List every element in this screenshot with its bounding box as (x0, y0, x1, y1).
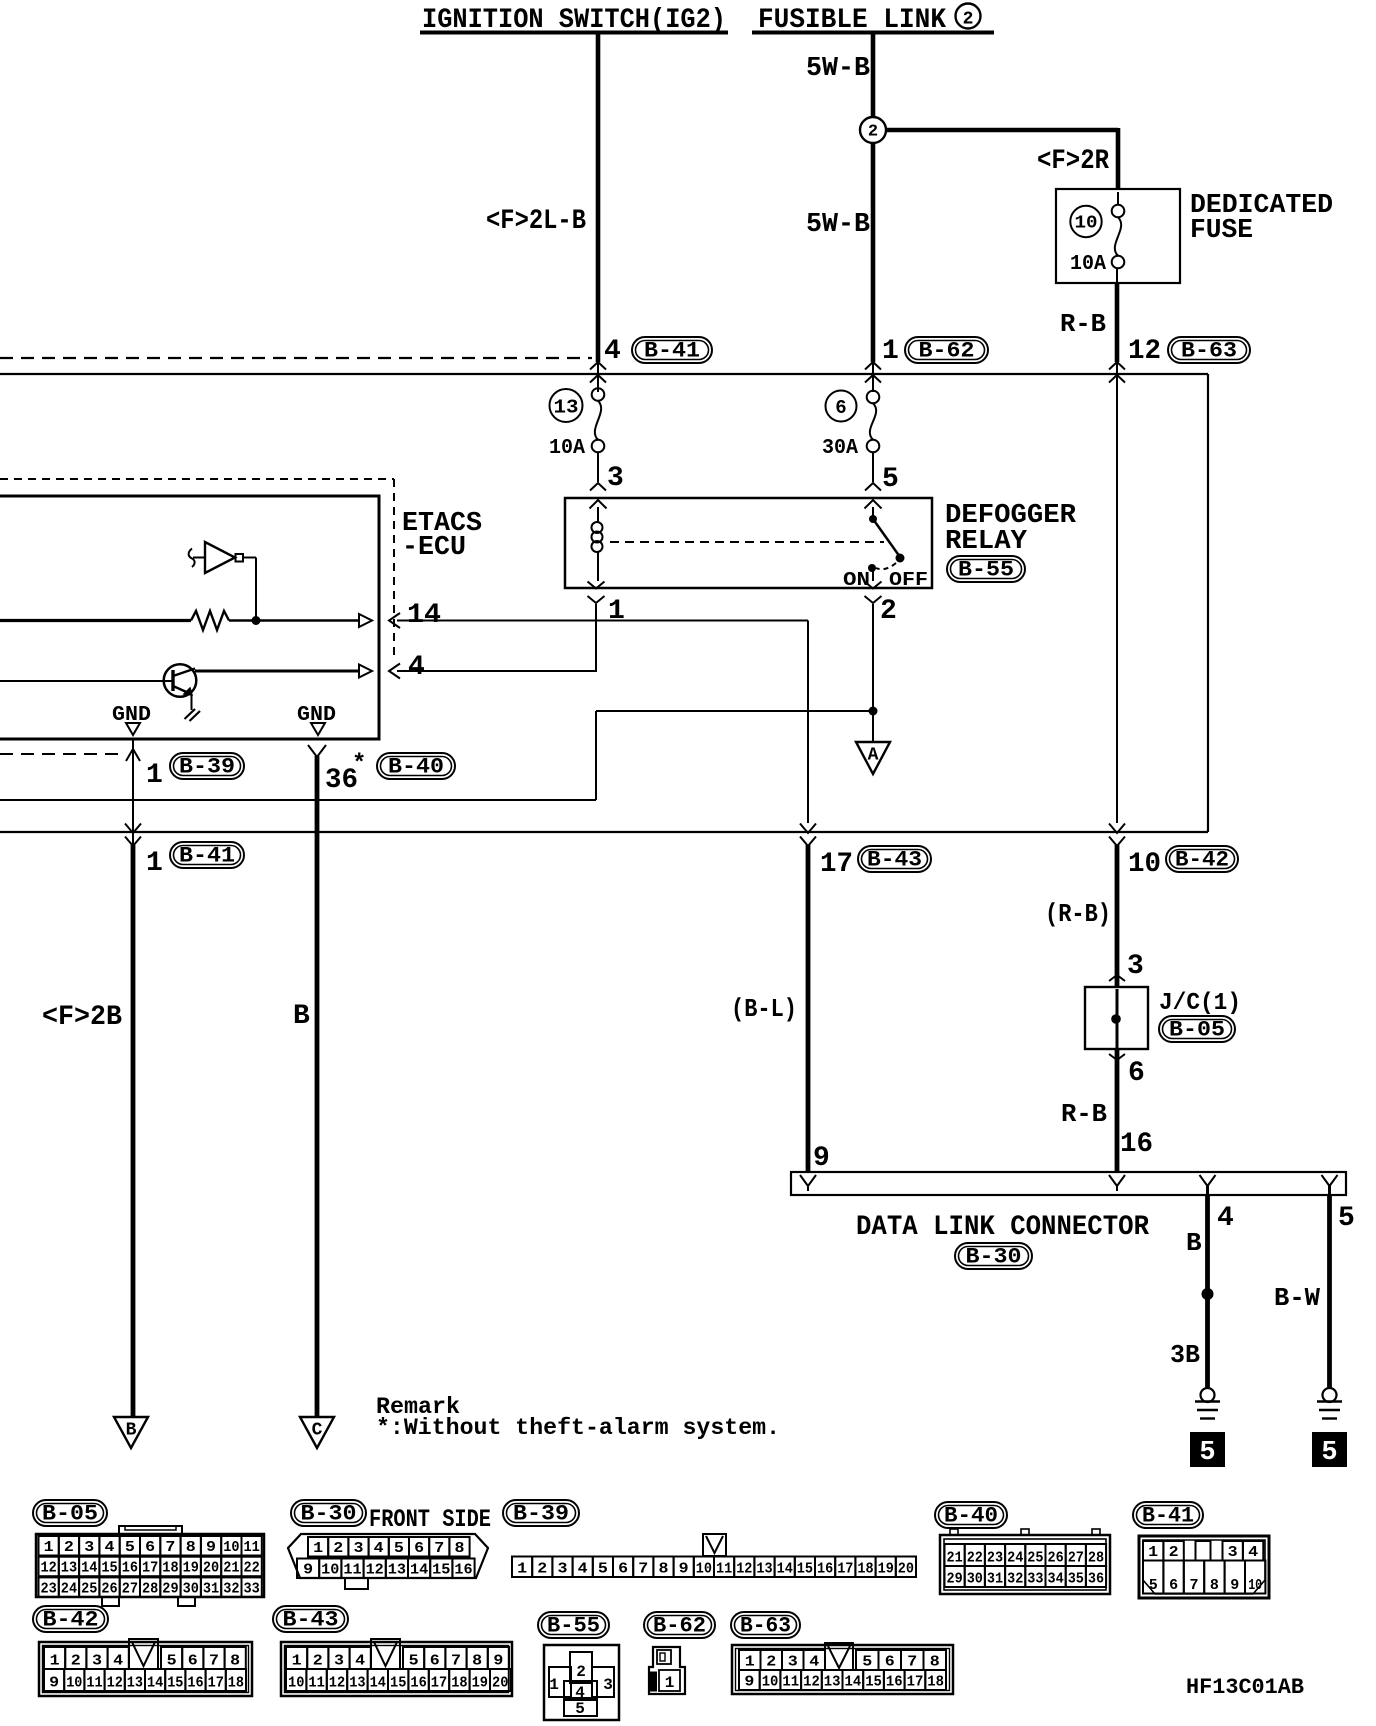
svg-text:3: 3 (558, 1561, 568, 1578)
svg-text:29: 29 (162, 1580, 178, 1597)
svg-text:7: 7 (451, 1653, 461, 1670)
connector crossing pin 17 B-43 on bus (800, 824, 816, 834)
svg-text:22: 22 (244, 1560, 260, 1577)
svg-text:4: 4 (604, 336, 621, 367)
svg-text:5: 5 (1199, 1438, 1215, 1468)
connector B-05 pin face drawing (36, 1534, 264, 1597)
svg-text:DATA LINK CONNECTOR: DATA LINK CONNECTOR (856, 1212, 1149, 1243)
svg-text:7: 7 (638, 1561, 648, 1578)
svg-text:11: 11 (308, 1675, 324, 1692)
svg-text:9: 9 (303, 1562, 313, 1579)
svg-text:B-30: B-30 (966, 1245, 1022, 1270)
svg-text:18: 18 (857, 1561, 873, 1578)
relay coil (597, 507, 599, 522)
svg-text:5: 5 (1338, 1203, 1355, 1234)
svg-text:B-05: B-05 (42, 1502, 98, 1527)
svg-text:14: 14 (410, 1562, 428, 1579)
svg-text:B: B (293, 1001, 310, 1032)
svg-text:2: 2 (333, 1540, 343, 1557)
svg-text:6: 6 (1169, 1577, 1178, 1594)
ground arrow B (114, 1417, 148, 1448)
svg-text:10: 10 (696, 1561, 712, 1578)
svg-text:1: 1 (745, 1654, 755, 1671)
svg-text:B-40: B-40 (944, 1504, 998, 1529)
svg-text:6: 6 (145, 1539, 155, 1556)
svg-text:14: 14 (81, 1560, 97, 1577)
svg-text:2: 2 (868, 123, 878, 142)
svg-text:6: 6 (430, 1653, 440, 1670)
svg-text:16: 16 (410, 1675, 426, 1692)
relay connector pill B-55 (947, 556, 1025, 582)
svg-text:9: 9 (744, 1674, 754, 1691)
junction block top edge (0, 373, 1208, 375)
svg-text:6: 6 (414, 1540, 424, 1557)
svg-text:13: 13 (824, 1674, 841, 1691)
svg-text:B-41: B-41 (644, 339, 700, 364)
wire R-B below dedicated fuse (1115, 283, 1120, 362)
relay pin 1 terminal chevrons and label (588, 582, 605, 589)
svg-text:5: 5 (394, 1540, 404, 1557)
connector B-41 pin face drawing (1139, 1536, 1269, 1598)
internal ground hash at transistor emitter (185, 709, 196, 719)
connector B-63 label pill (731, 1612, 800, 1638)
svg-text:30: 30 (967, 1571, 983, 1588)
svg-text:7: 7 (165, 1539, 175, 1556)
svg-text:8: 8 (659, 1561, 669, 1578)
svg-text:25: 25 (1027, 1550, 1043, 1567)
svg-text:36: 36 (1088, 1571, 1104, 1588)
svg-text:3: 3 (334, 1653, 344, 1670)
svg-text:10: 10 (66, 1675, 82, 1692)
svg-text:1: 1 (313, 1540, 323, 1557)
svg-text:26: 26 (101, 1580, 117, 1597)
svg-text:9: 9 (679, 1561, 689, 1578)
svg-text:<F>2L-B: <F>2L-B (486, 206, 586, 237)
svg-text:10A: 10A (549, 437, 585, 460)
svg-text:18: 18 (451, 1675, 467, 1692)
svg-text:1: 1 (608, 596, 625, 627)
svg-text:16: 16 (454, 1562, 472, 1579)
connector B-41 label pill (1133, 1502, 1203, 1528)
svg-text:1: 1 (549, 1676, 559, 1694)
DLC pin 16 fork terminal (1109, 1175, 1125, 1191)
ETACS pin 4 connector chevron and label (389, 664, 400, 679)
svg-text:23: 23 (987, 1550, 1003, 1567)
svg-text:C: C (312, 1421, 323, 1441)
svg-text:5: 5 (575, 1700, 585, 1718)
svg-text:33: 33 (244, 1580, 260, 1597)
svg-text:35: 35 (1068, 1571, 1084, 1588)
svg-text:16: 16 (1120, 1129, 1153, 1160)
svg-text:14: 14 (845, 1674, 862, 1691)
svg-text:12: 12 (736, 1561, 752, 1578)
svg-text:2: 2 (880, 596, 897, 627)
svg-text:3: 3 (84, 1539, 94, 1556)
wire ETACS ground pin 1 B-39 (132, 739, 134, 846)
svg-text:17: 17 (837, 1561, 853, 1578)
svg-text:15: 15 (432, 1562, 450, 1579)
svg-text:4: 4 (1248, 1544, 1258, 1561)
svg-text:OFF: OFF (889, 569, 928, 591)
svg-text:8: 8 (186, 1539, 196, 1556)
svg-text:31: 31 (987, 1571, 1003, 1588)
svg-text:16: 16 (817, 1561, 833, 1578)
relay pin 3 terminal chevrons (590, 483, 606, 491)
dashed boundary line above junction block (0, 357, 592, 359)
svg-text:B: B (126, 1421, 137, 1441)
svg-text:6: 6 (885, 1654, 895, 1671)
svg-text:5: 5 (1149, 1577, 1158, 1594)
junction block bottom edge (0, 831, 1208, 833)
svg-text:B-30: B-30 (301, 1502, 357, 1527)
svg-text:1: 1 (50, 1653, 60, 1670)
svg-text:15: 15 (865, 1674, 882, 1691)
svg-text:12: 12 (107, 1675, 123, 1692)
svg-text:7: 7 (1189, 1577, 1198, 1594)
svg-text:26: 26 (1048, 1550, 1064, 1567)
wire 5W-B from fusible link (871, 33, 876, 362)
svg-text:9: 9 (206, 1539, 216, 1556)
chassis ground for wire B-W (1323, 1388, 1337, 1402)
relay pin 2 wire and chevrons and label (872, 571, 874, 581)
svg-text:4: 4 (113, 1653, 123, 1670)
connector B-43 label pill (273, 1606, 348, 1632)
svg-text:5W-B: 5W-B (806, 54, 870, 84)
ground arrow A (856, 742, 890, 774)
junction dot on wire B (1202, 1288, 1214, 1300)
svg-text:19: 19 (472, 1675, 488, 1692)
DLC pin 9 fork terminal (800, 1175, 816, 1191)
wire <F>2B to ground B (131, 845, 136, 1417)
svg-text:13: 13 (127, 1675, 143, 1692)
junction dot on relay pin 2 wire (869, 707, 878, 716)
joint connector J/C(1) box (1085, 987, 1148, 1049)
svg-text:18: 18 (228, 1675, 244, 1692)
svg-text:5W-B: 5W-B (806, 210, 870, 240)
svg-text:9: 9 (493, 1653, 503, 1670)
ETACS pin 14 output arrow (359, 614, 372, 627)
svg-text:5: 5 (1321, 1438, 1337, 1468)
svg-text:B-41: B-41 (1142, 1504, 1194, 1529)
svg-text:B-41: B-41 (179, 844, 235, 869)
svg-text:8: 8 (1210, 1577, 1219, 1594)
svg-text:4: 4 (355, 1653, 365, 1670)
connector B-05 label pill (33, 1500, 107, 1526)
svg-text:1: 1 (146, 760, 163, 791)
svg-text:B-55: B-55 (547, 1614, 600, 1639)
svg-text:R-B: R-B (1061, 1099, 1107, 1129)
svg-text:FRONT SIDE: FRONT SIDE (369, 1505, 491, 1534)
wire ETACS pin 14 to junction block right (397, 620, 808, 622)
svg-text:11: 11 (244, 1539, 260, 1556)
dashed ETACS connector boundary (0, 478, 394, 480)
svg-text:4: 4 (374, 1540, 384, 1557)
svg-text:31: 31 (203, 1580, 219, 1597)
connector B-40 pin face drawing (940, 1535, 1110, 1594)
svg-text:4: 4 (809, 1654, 819, 1671)
svg-text:5: 5 (409, 1653, 419, 1670)
svg-text:B-39: B-39 (179, 755, 235, 780)
svg-text:18: 18 (927, 1674, 944, 1691)
svg-text:*:Without theft-alarm system.: *:Without theft-alarm system. (376, 1415, 780, 1441)
svg-text:B-62: B-62 (919, 339, 975, 364)
svg-text:17: 17 (208, 1675, 224, 1692)
svg-text:10A: 10A (1070, 253, 1106, 276)
svg-text:2: 2 (963, 10, 974, 30)
svg-text:3: 3 (354, 1540, 364, 1557)
wire ETACS ground pin 36 B-40 (308, 745, 326, 757)
DLC pin 4 fork terminal and label (1200, 1175, 1216, 1186)
svg-text:3: 3 (607, 463, 624, 494)
svg-text:9: 9 (1230, 1577, 1239, 1594)
svg-text:(R-B): (R-B) (1045, 899, 1111, 929)
svg-text:13: 13 (61, 1560, 77, 1577)
svg-text:A: A (868, 746, 879, 766)
svg-text:23: 23 (41, 1580, 57, 1597)
svg-text:7: 7 (209, 1653, 219, 1670)
svg-text:2: 2 (766, 1654, 776, 1671)
svg-text:5: 5 (125, 1539, 135, 1556)
svg-text:12: 12 (1128, 336, 1161, 367)
svg-text:10: 10 (1128, 849, 1161, 880)
wire from relay pin 1 to ETACS pin 4 (595, 604, 597, 672)
svg-text:2: 2 (313, 1653, 323, 1670)
svg-text:12: 12 (366, 1562, 384, 1579)
connector B-40 label pill (935, 1502, 1007, 1528)
svg-text:ON: ON (843, 569, 870, 591)
svg-text:1: 1 (44, 1539, 54, 1556)
svg-text:12: 12 (803, 1674, 820, 1691)
svg-text:8: 8 (455, 1540, 465, 1557)
svg-text:HF13C01AB: HF13C01AB (1186, 1675, 1304, 1700)
svg-text:16: 16 (187, 1675, 203, 1692)
svg-text:22: 22 (967, 1550, 983, 1567)
svg-text:5: 5 (167, 1653, 177, 1670)
svg-text:FUSE: FUSE (1190, 216, 1253, 246)
wire ETACS pin 4 line (195, 670, 359, 673)
ground arrow C (300, 1417, 334, 1448)
svg-text:25: 25 (81, 1580, 97, 1597)
connector crossing pin 1 B-41 on bus (125, 824, 141, 834)
wire from inverter output to pin 14 net (243, 557, 256, 559)
connector B-63 pin face drawing (732, 1645, 953, 1694)
connector B-39 pin face drawing (703, 1534, 726, 1556)
svg-text:(B-L): (B-L) (731, 994, 797, 1024)
svg-text:B-63: B-63 (740, 1614, 791, 1639)
svg-text:11: 11 (716, 1561, 732, 1578)
svg-text:2: 2 (64, 1539, 74, 1556)
transistor Q inside ETACS (164, 664, 197, 697)
svg-text:29: 29 (947, 1571, 963, 1588)
fuse rating circle 10 (1070, 206, 1101, 237)
svg-text:32: 32 (223, 1580, 239, 1597)
svg-text:13: 13 (349, 1675, 365, 1692)
svg-text:15: 15 (390, 1675, 406, 1692)
svg-text:3: 3 (92, 1653, 102, 1670)
svg-text:8: 8 (930, 1654, 940, 1671)
wire B from DLC pin 4 (1205, 1195, 1210, 1388)
junction dot on pin 14 line (229, 619, 359, 621)
svg-text:11: 11 (782, 1674, 799, 1691)
svg-text:21: 21 (947, 1550, 963, 1567)
svg-text:32: 32 (1007, 1571, 1023, 1588)
connector B-30 label pill (291, 1500, 366, 1526)
wire junction-block internal right segment (1116, 375, 1118, 823)
connector crossing pin 10 B-42 on bus (1109, 824, 1125, 834)
fuse element 10A in dedicated fuse (1117, 192, 1119, 205)
svg-text:10: 10 (321, 1562, 339, 1579)
connector B-62 pin face drawing (649, 1647, 685, 1694)
svg-text:12: 12 (329, 1675, 345, 1692)
svg-text:16: 16 (886, 1674, 903, 1691)
svg-text:B: B (1186, 1228, 1202, 1258)
junction block right edge (1207, 374, 1209, 832)
svg-text:17: 17 (907, 1674, 924, 1691)
svg-text:10: 10 (1075, 214, 1098, 234)
NOT gate (inverter) inside ETACS (189, 549, 195, 568)
svg-text:19: 19 (183, 1560, 199, 1577)
svg-text:2: 2 (1169, 1544, 1179, 1561)
svg-text:4: 4 (408, 652, 425, 683)
wire (R-B) to junction connector (1115, 845, 1120, 988)
svg-text:34: 34 (1048, 1571, 1064, 1588)
svg-text:6: 6 (188, 1653, 198, 1670)
svg-text:B-W: B-W (1274, 1283, 1320, 1313)
svg-text:18: 18 (162, 1560, 178, 1577)
svg-text:6: 6 (1128, 1058, 1145, 1089)
connector B-62 label pill (644, 1612, 715, 1638)
svg-text:17: 17 (142, 1560, 158, 1577)
svg-text:21: 21 (223, 1560, 239, 1577)
svg-text:4: 4 (1217, 1203, 1234, 1234)
svg-text:<F>2R: <F>2R (1037, 146, 1109, 177)
fuse 13 (10A) in junction block (550, 389, 583, 422)
svg-text:4: 4 (105, 1539, 115, 1556)
svg-text:24: 24 (1007, 1550, 1023, 1567)
defogger relay box B-55 (565, 498, 932, 588)
svg-text:B-05: B-05 (1169, 1018, 1225, 1043)
svg-text:13: 13 (756, 1561, 772, 1578)
svg-text:1: 1 (882, 336, 899, 367)
svg-text:5: 5 (862, 1654, 872, 1671)
svg-text:8: 8 (472, 1653, 482, 1670)
DLC pin 5 fork terminal and label (1322, 1175, 1338, 1186)
svg-text:5: 5 (882, 464, 899, 495)
svg-text:6: 6 (618, 1561, 628, 1578)
wire B-W from DLC pin 5 (1327, 1195, 1332, 1388)
svg-text:2: 2 (537, 1561, 547, 1578)
svg-text:B-39: B-39 (513, 1502, 569, 1527)
relay switch contact from pin 5 (872, 507, 874, 519)
svg-text:1: 1 (665, 1674, 675, 1692)
svg-text:3: 3 (1127, 951, 1144, 982)
connector B-42 label pill (33, 1606, 108, 1632)
svg-text:28: 28 (1088, 1550, 1104, 1567)
svg-text:4: 4 (578, 1561, 588, 1578)
svg-text:10: 10 (223, 1539, 239, 1556)
svg-text:R-B: R-B (1060, 309, 1106, 339)
svg-text:10: 10 (1248, 1577, 1262, 1594)
svg-text:24: 24 (61, 1580, 77, 1597)
svg-text:33: 33 (1027, 1571, 1043, 1588)
svg-text:<F>2B: <F>2B (42, 1002, 122, 1033)
resistor on ETACS pin 14 line (0, 619, 191, 622)
ETACS pin 14 connector chevron and label (389, 613, 400, 628)
svg-text:B-42: B-42 (43, 1608, 99, 1633)
connector B-55 label pill (538, 1612, 609, 1638)
svg-text:13: 13 (388, 1562, 406, 1579)
svg-text:B-55: B-55 (958, 558, 1014, 583)
svg-text:B-40: B-40 (388, 755, 444, 780)
svg-text:16: 16 (122, 1560, 138, 1577)
wire from junction A to left circuit (596, 710, 873, 712)
svg-text:B-43: B-43 (283, 1608, 339, 1633)
svg-text:20: 20 (203, 1560, 219, 1577)
chassis ground for wire B (1201, 1388, 1215, 1402)
svg-text:1: 1 (517, 1561, 527, 1578)
dedicated fuse box (1056, 189, 1180, 283)
svg-text:13: 13 (554, 397, 579, 419)
svg-text:1: 1 (292, 1653, 302, 1670)
relay pin 5 terminal chevrons (865, 483, 881, 491)
svg-text:9: 9 (49, 1675, 59, 1692)
svg-text:14: 14 (407, 600, 441, 631)
svg-text:B-42: B-42 (1175, 848, 1229, 873)
svg-text:17: 17 (820, 849, 853, 880)
svg-text:6: 6 (835, 397, 846, 419)
svg-text:30: 30 (183, 1580, 199, 1597)
svg-text:2: 2 (71, 1653, 81, 1670)
svg-text:14: 14 (147, 1675, 163, 1692)
wire <F>2L-B from ignition switch IG2 (596, 33, 601, 362)
connector B-39 label pill (503, 1500, 579, 1526)
svg-text:27: 27 (1068, 1550, 1084, 1567)
wire <F>2R branch to dedicated fuse (885, 128, 1118, 133)
svg-text:3B: 3B (1170, 1340, 1200, 1370)
svg-text:19: 19 (878, 1561, 894, 1578)
svg-text:12: 12 (41, 1560, 57, 1577)
svg-text:28: 28 (142, 1580, 158, 1597)
svg-text:B-43: B-43 (867, 848, 922, 873)
svg-text:9: 9 (813, 1143, 830, 1174)
fuse 6 (30A) in junction block (826, 391, 857, 422)
splice junction 2 on 5W-B wire (860, 117, 886, 143)
svg-text:17: 17 (431, 1675, 447, 1692)
svg-text:30A: 30A (822, 437, 858, 460)
svg-text:B-62: B-62 (653, 1614, 706, 1639)
connector B-55 pin face drawing (544, 1645, 619, 1720)
svg-text:10: 10 (288, 1675, 304, 1692)
svg-text:B-63: B-63 (1181, 339, 1237, 364)
svg-text:2: 2 (576, 1663, 586, 1681)
svg-text:10: 10 (762, 1674, 779, 1691)
svg-text:7: 7 (434, 1540, 444, 1557)
connector B-30 pin face drawing (288, 1534, 488, 1578)
relay internal dashed link (610, 541, 884, 543)
svg-text:14: 14 (777, 1561, 793, 1578)
svg-text:RELAY: RELAY (945, 527, 1028, 557)
data link connector box B-30 (791, 1172, 1346, 1195)
svg-text:1: 1 (1148, 1544, 1158, 1561)
svg-text:-ECU: -ECU (402, 533, 466, 563)
svg-text:15: 15 (167, 1675, 183, 1692)
connector B-42 pin face drawing (39, 1642, 252, 1696)
svg-text:15: 15 (101, 1560, 117, 1577)
J/C pin 6 label and chevron (1109, 1054, 1125, 1060)
dashed boundary below ETACS (0, 753, 124, 755)
svg-text:*: * (352, 751, 366, 778)
svg-text:20: 20 (898, 1561, 914, 1578)
